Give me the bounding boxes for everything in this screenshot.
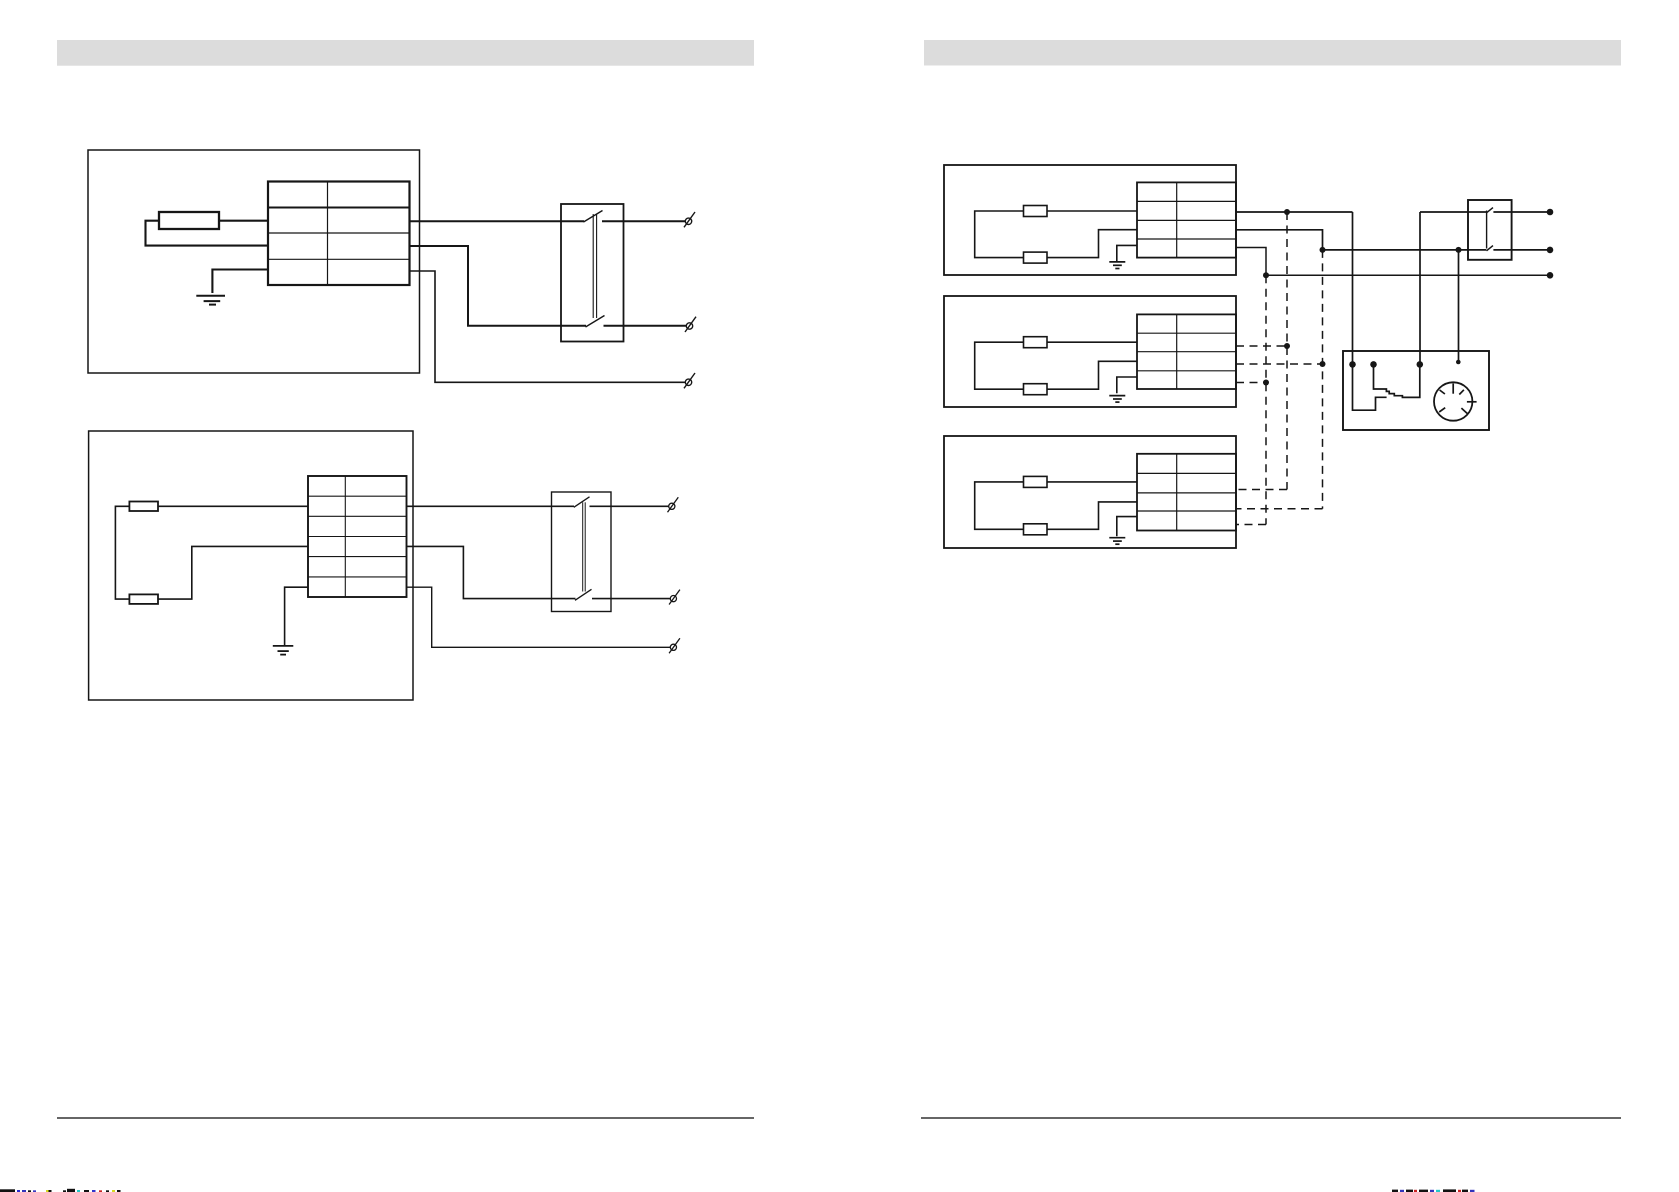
terminal T6	[669, 638, 680, 653]
junction dot J4	[1263, 272, 1269, 278]
resistor R4a	[1024, 337, 1048, 348]
switch S1 linkage	[593, 214, 596, 318]
cut-off footer text right	[1392, 1189, 1475, 1192]
terminal block X4	[1137, 314, 1236, 389]
switch S3 blade top	[1487, 208, 1494, 213]
resistor R4b	[1024, 384, 1048, 395]
resistor R3b	[1024, 252, 1048, 263]
enclosure box B3	[944, 436, 1236, 548]
wire R1 right to terminal block	[219, 220, 268, 222]
supply terminal dot N2	[1547, 247, 1554, 254]
control unit K1 box	[1343, 351, 1489, 430]
wire R2b to block row4	[158, 546, 308, 599]
ground G1	[196, 296, 225, 305]
wire ground stub B2	[1117, 377, 1137, 393]
ground G3	[1109, 262, 1125, 269]
resistor R2b	[129, 594, 158, 604]
switch S2 box	[552, 492, 612, 612]
wire R2a to block row2	[158, 505, 308, 507]
control unit terminal dot P3	[1417, 361, 1424, 368]
wire switch feed	[1420, 212, 1550, 364]
ground G5	[1109, 538, 1125, 545]
enclosure box B2	[944, 296, 1236, 407]
resistor R2a	[129, 502, 158, 512]
switch S1 box	[561, 204, 624, 342]
terminal block X3	[1137, 182, 1236, 257]
wire R5b to block row3	[1047, 502, 1137, 529]
resistor R5a	[1024, 476, 1048, 487]
supply terminal dot N1	[1547, 209, 1554, 216]
junction dot J7	[1263, 380, 1269, 386]
dashed wire D2	[1236, 212, 1287, 490]
terminal block X2	[308, 476, 407, 597]
cut-off footer text left	[0, 1189, 121, 1192]
wire X2 row6 to terminal T6	[407, 587, 671, 647]
wire left loop R2a-R2b	[115, 506, 129, 599]
wire L3 from X3 row4	[1236, 248, 1550, 276]
dashed stub X4 row4	[1236, 382, 1266, 384]
wire block row2 to switch	[410, 220, 686, 222]
switch S1 blade bottom	[586, 316, 605, 328]
junction dot J5	[1284, 343, 1290, 349]
junction dot J1	[1284, 209, 1290, 215]
switch S2 blade top	[574, 497, 590, 508]
ground G2	[273, 646, 294, 655]
junction dot J2	[1320, 247, 1326, 253]
switch S2 linkage	[583, 502, 586, 591]
terminal T2	[685, 317, 696, 332]
terminal T4	[668, 497, 679, 512]
wire ground stub	[212, 270, 268, 294]
wire ground stub B3	[1117, 517, 1137, 537]
control unit terminal dot P2	[1370, 361, 1377, 368]
switch S2 blade bottom	[575, 589, 592, 600]
enclosure box A2	[89, 431, 413, 700]
wire X2 row4 to switch S2 lower	[407, 546, 671, 598]
junction dot J3	[1456, 247, 1462, 253]
wire loop R5a-R5b	[975, 482, 1024, 529]
resistor R3a	[1024, 206, 1048, 217]
wire loop R3a-R3b	[975, 211, 1024, 258]
wire R5a to block	[1047, 481, 1137, 483]
wire R1 left loop to block row3	[146, 221, 269, 246]
dashed wire D1	[1236, 275, 1266, 524]
terminal block X5	[1137, 454, 1236, 531]
control unit contact B path with wiper	[1374, 364, 1420, 397]
switch S3 blade bottom	[1487, 246, 1494, 251]
control unit contact A path	[1353, 364, 1387, 410]
wire R3a to block	[1047, 210, 1137, 212]
footer rule left	[57, 1117, 754, 1119]
terminal T5	[669, 590, 680, 605]
wire ground stub 2	[285, 587, 308, 645]
wire block row4 to terminal 3	[410, 271, 686, 382]
wire L2 from X3 row3	[1236, 230, 1550, 362]
ground G4	[1109, 396, 1125, 403]
timer clock dial	[1434, 382, 1477, 420]
switch S3 linkage	[1486, 211, 1488, 249]
wire L1 from X3 row2	[1236, 212, 1353, 364]
wire R3b to block row3	[1047, 230, 1137, 258]
header bar right	[924, 40, 1621, 66]
junction dot J6	[1320, 361, 1326, 367]
wire X2 row2 to switch S2	[407, 505, 669, 507]
terminal T1	[684, 212, 695, 227]
wire R4b to block row3	[1047, 361, 1137, 389]
terminal block X1	[268, 182, 410, 286]
header bar left	[57, 40, 754, 66]
resistor R5b	[1024, 524, 1048, 535]
control unit terminal dot P4	[1456, 360, 1461, 365]
dashed wire D3	[1236, 250, 1323, 509]
footer rule right	[921, 1117, 1621, 1119]
wire ground stub B1	[1117, 245, 1137, 261]
resistor R1	[159, 212, 219, 229]
control unit terminal dot P1	[1349, 361, 1356, 368]
switch S3 box	[1468, 200, 1512, 260]
supply terminal dot N3	[1547, 272, 1554, 279]
wire R4a to block	[1047, 341, 1137, 343]
wire loop R4a-R4b	[975, 342, 1024, 389]
wire block row3 to switch lower	[410, 246, 687, 326]
enclosure box B1	[944, 165, 1236, 275]
enclosure box A1	[88, 150, 420, 373]
terminal T3	[684, 373, 695, 388]
dashed stub X4 row3	[1236, 363, 1323, 365]
switch S1 blade top	[584, 211, 603, 223]
dashed stub X4 row2	[1236, 345, 1287, 347]
